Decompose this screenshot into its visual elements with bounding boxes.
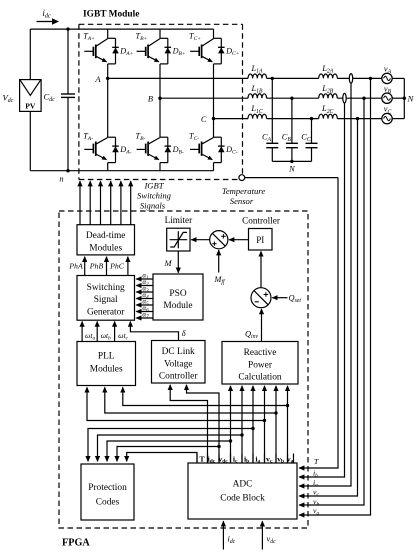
svg-text:T: T [314, 457, 319, 466]
wire v_b sense line [299, 98, 364, 505]
capacitor C_dc [61, 29, 75, 171]
inductor L_1A [248, 74, 267, 78]
summer (M) junction [210, 231, 228, 249]
svg-text:C: C [201, 115, 207, 124]
block Protection Codes [81, 464, 134, 520]
source v_C [382, 113, 392, 123]
svg-text:Voltage: Voltage [164, 359, 192, 369]
wire i_a to protection [88, 429, 253, 462]
wire v_dc to protection [117, 447, 219, 462]
svg-text:Signals: Signals [140, 201, 166, 211]
wire top dc rail [30, 28, 213, 30]
inductor L_2B [319, 94, 338, 98]
svg-text:Switching: Switching [137, 190, 172, 200]
wire limiter output M [177, 251, 179, 273]
wire i_c to protection [107, 441, 231, 461]
node v_c PLL tap [263, 419, 266, 422]
svg-text:n: n [59, 175, 63, 184]
svg-text:N: N [407, 94, 415, 104]
inductor L_2C [319, 114, 338, 118]
node dc+ junction [66, 27, 69, 30]
wire i_b to RPC [241, 386, 243, 463]
wire grid neutral bus [392, 78, 404, 118]
svg-text:PhC: PhC [109, 262, 125, 271]
wire bottom dc rail [30, 170, 213, 172]
node C [212, 117, 215, 120]
inductor L_1B [248, 94, 267, 98]
wire delta feedback [130, 322, 178, 341]
svg-text:Temperature: Temperature [222, 186, 265, 196]
node voltage tap v_b [362, 97, 365, 100]
block Reactive Power Calculation [222, 342, 298, 385]
svg-text:PI: PI [256, 235, 264, 245]
node N junction [403, 97, 406, 100]
wire temperature sensor to T line [245, 177, 338, 179]
IGBT Module dashed boundary [79, 24, 243, 179]
node B [158, 97, 161, 100]
wire omega-t_a arrow [81, 322, 83, 341]
svg-text:FPGA: FPGA [62, 538, 90, 549]
inductor L_1C [248, 114, 267, 118]
wire Q_set arrow [272, 297, 287, 299]
wire A L2 to grid [337, 77, 382, 79]
wire i_a sense line [299, 84, 351, 486]
block Dead-time Modules [77, 225, 135, 255]
wire v_b to RPC [275, 386, 277, 463]
node n junction [66, 169, 69, 172]
block ADC Code Block [188, 463, 297, 519]
svg-text:B: B [148, 95, 153, 104]
wire PhB arrow [106, 257, 108, 276]
wire A L1 to L2 [267, 77, 319, 79]
svg-text:DC Link: DC Link [162, 347, 195, 357]
node v_b PLL tap [274, 411, 277, 414]
wire C L1 to L2 [267, 118, 319, 120]
node cap tap C [310, 117, 313, 120]
IGBT gate signal arrows (6) [80, 181, 131, 225]
wire PhC arrow [127, 257, 129, 276]
wire PI to summer [229, 239, 248, 241]
svg-text:PLL: PLL [98, 352, 115, 362]
wire summer to PI [260, 251, 262, 287]
transistor TB+ (upper IGBT leg) [137, 29, 168, 98]
diode DA+ (anti-parallel) [112, 38, 119, 64]
wire phase A to filter [108, 77, 248, 79]
svg-text:ADC: ADC [233, 480, 253, 490]
wire omega-t_c arrow [114, 322, 116, 341]
node voltage tap v_c [356, 117, 359, 120]
wire v_a to RPC [287, 386, 289, 463]
wire PhA arrow [84, 257, 86, 276]
svg-text:Signal: Signal [94, 295, 118, 305]
source v_B [382, 93, 392, 103]
wire v_c sense line [299, 119, 357, 496]
svg-text:N: N [288, 164, 295, 173]
wire PV to bottom rail [29, 111, 31, 170]
FPGA dashed boundary [59, 211, 308, 528]
current sensor on phase A (i_a) [349, 74, 352, 84]
summer (Q) junction [251, 288, 271, 308]
node cap tap A [271, 77, 274, 80]
svg-text:Generator: Generator [87, 308, 125, 318]
wire v_c to PLL [87, 387, 265, 420]
wire v_c to RPC [264, 386, 266, 463]
svg-text:IGBT: IGBT [143, 180, 164, 190]
svg-text:Calculation: Calculation [238, 373, 282, 383]
diode DC+ (anti-parallel) [218, 38, 225, 64]
svg-text:PhA: PhA [68, 262, 83, 271]
block Switching Signal Generator [77, 276, 135, 321]
svg-text:Module: Module [163, 301, 192, 311]
wire M_ff arrow [218, 250, 220, 272]
wire i_dc to DC link controller [170, 385, 207, 463]
alpha signal arrows PSO to SSG (7) [136, 279, 153, 318]
block DC Link Voltage Controller [152, 341, 206, 384]
svg-text:Codes: Codes [96, 498, 120, 508]
wire i_b to protection [98, 435, 243, 461]
capacitor C_C [311, 119, 313, 144]
wire B L1 to L2 [267, 97, 319, 99]
transistor TA+ (upper IGBT leg) [84, 29, 115, 78]
wire v_dc input arrow [261, 521, 263, 549]
svg-text:A: A [94, 75, 101, 84]
svg-text:Code Block: Code Block [220, 494, 265, 504]
node v_dc protection tap [217, 445, 220, 448]
capacitor C_B [291, 98, 293, 143]
wire T to protection [127, 453, 197, 464]
wire Q_inv arrow [261, 309, 263, 341]
node capacitor neutral junction [290, 160, 293, 163]
temperature sensor [239, 175, 245, 181]
svg-text:PhB: PhB [89, 262, 104, 271]
dc current arrow [37, 21, 53, 23]
wire i_b sense line [299, 103, 344, 477]
svg-text:T: T [199, 454, 205, 463]
svg-text:Modules: Modules [89, 244, 122, 254]
svg-text:PV: PV [25, 101, 36, 110]
current sensor on phase B (i_b) [343, 93, 346, 103]
wire v_a sense line [299, 78, 370, 515]
transistor TC- (lower IGBT leg) [190, 119, 221, 171]
node i_b protection tap [240, 433, 243, 436]
label Temperature Sensor [222, 186, 265, 206]
wire phase C to filter [214, 118, 249, 120]
svg-text:Modules: Modules [90, 364, 123, 374]
svg-text:Power: Power [248, 360, 273, 370]
svg-text:Switching: Switching [87, 283, 125, 293]
wire omega-t_b arrow [96, 322, 98, 341]
transistor TC+ (upper IGBT leg) [190, 29, 221, 119]
label IGBT Switching Signals [137, 180, 172, 210]
wire T sense line [299, 178, 338, 468]
diode DB+ (anti-parallel) [165, 38, 172, 64]
ADC signal label row ticks [197, 454, 294, 464]
wire left dc+ to PV [29, 29, 31, 80]
node v_a PLL tap [286, 404, 289, 407]
block PSO Module [153, 274, 203, 320]
svg-text:Reactive: Reactive [244, 348, 277, 358]
capacitor C_A [271, 78, 273, 143]
svg-text:Dead-time: Dead-time [86, 231, 126, 241]
wire phase B to filter [160, 97, 248, 99]
wire v_b to PLL [105, 387, 276, 413]
node cap tap B [290, 97, 293, 100]
inductor L_2A [319, 74, 338, 78]
wire v_dc to DC link controller [187, 385, 220, 463]
node voltage tap v_a [369, 77, 372, 80]
svg-text:IGBT Module: IGBT Module [83, 10, 139, 20]
wire capacitor neutral bus [272, 160, 311, 162]
wire C L2 to grid [337, 118, 382, 120]
block PI [249, 229, 273, 251]
wire v_a to PLL [123, 387, 288, 405]
svg-text:PSO: PSO [169, 289, 186, 299]
wire B L2 to grid [337, 97, 382, 99]
svg-text:Controller: Controller [242, 216, 280, 226]
svg-text:M: M [164, 259, 173, 268]
transistor TB- (lower IGBT leg) [137, 98, 168, 171]
source v_A [382, 73, 392, 83]
svg-text:Protection: Protection [88, 483, 127, 493]
block Limiter [167, 228, 190, 251]
wire i_c to RPC [230, 386, 232, 463]
node i_a protection tap [251, 427, 254, 430]
node i_c protection tap [229, 439, 232, 442]
diode DA- (anti-parallel) [112, 137, 119, 162]
wire i_dc input arrow [222, 521, 224, 549]
node A [106, 77, 109, 80]
wire summer to limiter [191, 239, 209, 241]
diode DB- (anti-parallel) [165, 137, 172, 162]
block PLL Modules [77, 342, 136, 386]
wire i_a to RPC [252, 386, 254, 463]
PV panel [20, 80, 41, 112]
svg-text:δ: δ [182, 329, 186, 338]
svg-text:Limiter: Limiter [165, 215, 193, 225]
svg-text:Controller: Controller [159, 372, 198, 382]
svg-text:Sensor: Sensor [230, 196, 254, 206]
diode DC- (anti-parallel) [218, 137, 225, 162]
transistor TA- (lower IGBT leg) [84, 78, 115, 170]
